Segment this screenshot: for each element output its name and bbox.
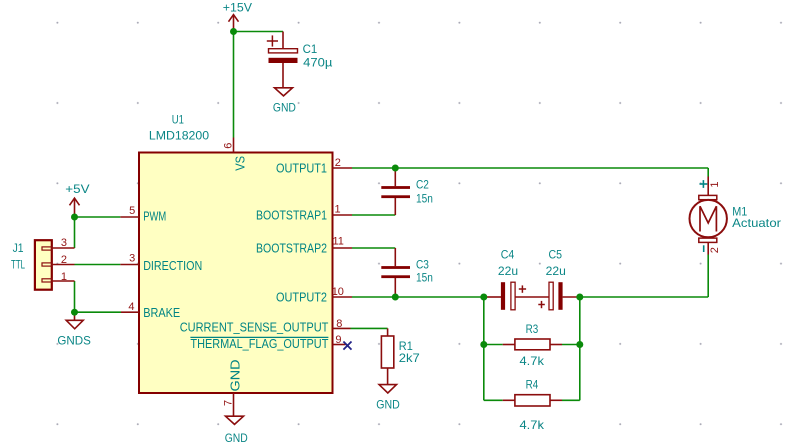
svg-text:OUTPUT1: OUTPUT1 — [276, 161, 327, 176]
U1 pin 10 stub — [333, 296, 353, 298]
wire to R3 left — [484, 344, 503, 346]
junction OUTPUT1 / C2 — [392, 165, 399, 172]
U1 pin 2 stub — [333, 167, 353, 169]
wire U1 pin 8 to R1 — [351, 327, 388, 329]
svg-text:7: 7 — [223, 400, 235, 406]
svg-text:C3: C3 — [416, 257, 429, 271]
junction +5V node — [71, 214, 78, 221]
svg-text:CURRENT_SENSE_OUTPUT: CURRENT_SENSE_OUTPUT — [180, 320, 329, 335]
svg-text:J1: J1 — [13, 241, 24, 255]
pin name THERMAL_FLAG_OUTPUT with overline — [190, 336, 328, 351]
svg-text:C1: C1 — [303, 42, 318, 56]
power symbol +5V — [70, 198, 80, 217]
svg-text:+15V: +15V — [223, 1, 252, 15]
wire right rail of R3/R4 — [579, 297, 581, 400]
svg-text:VS: VS — [232, 156, 247, 171]
svg-text:OUTPUT2: OUTPUT2 — [276, 290, 327, 305]
svg-text:GNDS: GNDS — [57, 333, 91, 347]
svg-text:2: 2 — [335, 157, 341, 169]
svg-text:1: 1 — [709, 181, 721, 187]
svg-text:R4: R4 — [526, 378, 539, 392]
svg-text:10: 10 — [332, 286, 344, 298]
svg-text:3: 3 — [61, 237, 67, 249]
svg-text:9: 9 — [335, 334, 341, 346]
svg-text:22u: 22u — [498, 264, 518, 278]
wire left rail of R3/R4 — [483, 297, 485, 400]
wire between C4 and C5 — [515, 296, 549, 298]
svg-text:15n: 15n — [416, 192, 433, 206]
capacitor C2 — [381, 168, 410, 215]
capacitor C4 — [485, 282, 526, 310]
resistor R1 — [381, 328, 393, 384]
power symbol +15V — [229, 15, 239, 32]
capacitor C5 — [538, 282, 580, 310]
wire from R3 right — [562, 344, 580, 346]
resistor R4 — [503, 395, 562, 406]
motor M1 body — [690, 195, 727, 242]
U1 pin 11 stub — [333, 247, 353, 249]
svg-text:4: 4 — [128, 301, 134, 313]
connector J1 body — [35, 240, 52, 290]
U1 pin 7 stub — [233, 393, 235, 416]
svg-text:GND: GND — [376, 398, 400, 412]
wire OUTPUT2 to C4 — [352, 296, 487, 298]
svg-text:4.7k: 4.7k — [520, 354, 545, 368]
U1 pin 1 stub — [333, 214, 353, 216]
svg-text:BOOTSTRAP2: BOOTSTRAP2 — [256, 241, 327, 256]
wire +15V node to C1 — [234, 31, 284, 33]
svg-text:15n: 15n — [416, 270, 433, 284]
svg-text:4.7k: 4.7k — [520, 418, 545, 432]
U1 pin 4 stub — [121, 311, 139, 313]
svg-text:5: 5 — [129, 205, 135, 217]
M1 pin 2 polarity - — [703, 245, 705, 252]
junction OUTPUT2 / C3 — [392, 294, 399, 301]
svg-text:Actuator: Actuator — [732, 216, 781, 230]
wire GNDS node to U1 pin 4 — [75, 311, 122, 313]
junction node right of C5 — [576, 294, 583, 301]
motor M1 pin 2 — [707, 243, 709, 255]
svg-text:BOOTSTRAP1: BOOTSTRAP1 — [256, 208, 327, 223]
svg-text:1: 1 — [61, 271, 67, 283]
ground below C1 — [275, 88, 293, 96]
capacitor C3 — [381, 248, 410, 297]
wire J1 pin 2 to U1 pin 3 — [75, 264, 121, 266]
junction right of R3 — [576, 341, 583, 348]
junction node left of C4 — [480, 294, 487, 301]
capacitor C1 — [267, 32, 298, 88]
svg-text:GND: GND — [273, 101, 296, 115]
U1 pin 5 stub — [120, 216, 139, 218]
svg-text:C2: C2 — [416, 178, 429, 192]
svg-text:LMD18200: LMD18200 — [149, 129, 210, 143]
wire J1 pin 1 down to GNDS node — [74, 281, 76, 312]
svg-text:THERMAL_FLAG_OUTPUT: THERMAL_FLAG_OUTPUT — [190, 336, 328, 351]
J1 pin 2 stub — [52, 264, 75, 266]
svg-text:6: 6 — [223, 143, 235, 149]
svg-text:C5: C5 — [549, 248, 563, 262]
svg-text:BRAKE: BRAKE — [143, 305, 180, 320]
svg-text:3: 3 — [129, 252, 135, 264]
U1 pin 8 stub — [333, 327, 351, 329]
motor M1 pin 1 — [707, 177, 709, 196]
wire BOOTSTRAP1 to C2 — [352, 214, 395, 216]
svg-text:11: 11 — [333, 236, 344, 248]
no-connect X on pin 9 — [343, 342, 351, 350]
svg-text:1: 1 — [335, 203, 341, 215]
wire from R4 right — [562, 399, 580, 401]
J1 pin 1 stub — [52, 280, 75, 282]
wire C5 to motor M1 — [580, 255, 708, 298]
J1 pin 3 stub — [52, 247, 75, 249]
wire BOOTSTRAP2 to C3 — [352, 247, 395, 249]
ground at pin 7 — [226, 416, 244, 424]
svg-text:GND: GND — [228, 360, 243, 392]
svg-text:470µ: 470µ — [303, 55, 332, 69]
resistor R3 — [503, 339, 562, 350]
svg-text:8: 8 — [336, 318, 342, 330]
ground below R1 — [379, 385, 396, 393]
wire +5V node down to J1 pin 3 — [74, 217, 76, 248]
svg-text:TTL: TTL — [11, 258, 25, 272]
M1 pin 1 polarity + — [700, 180, 708, 188]
wire +15V node down to U1 pin 6 — [233, 32, 235, 138]
svg-text:PWM: PWM — [143, 209, 166, 224]
IC U1 body — [139, 153, 333, 394]
junction +15V node — [230, 28, 237, 35]
svg-text:+5V: +5V — [65, 182, 89, 196]
svg-text:2: 2 — [61, 254, 67, 266]
wire +5V node to U1 pin 5 — [75, 216, 121, 218]
wire OUTPUT1 to motor M1 — [352, 168, 708, 177]
junction left of R3 — [480, 341, 487, 348]
junction GNDS node — [71, 309, 78, 316]
wire to R4 left — [484, 399, 503, 401]
U1 pin 3 stub — [120, 264, 139, 266]
svg-text:U1: U1 — [172, 113, 184, 127]
U1 pin 6 stub — [233, 138, 235, 153]
svg-text:GND: GND — [225, 431, 248, 445]
U1 pin 9 stub — [333, 344, 346, 346]
svg-text:R3: R3 — [526, 322, 539, 336]
svg-text:2k7: 2k7 — [399, 351, 420, 365]
svg-text:22u: 22u — [546, 264, 566, 278]
ground symbol GNDS — [66, 312, 83, 329]
svg-text:C4: C4 — [501, 248, 515, 262]
svg-text:DIRECTION: DIRECTION — [143, 258, 202, 273]
svg-text:2: 2 — [709, 247, 721, 253]
